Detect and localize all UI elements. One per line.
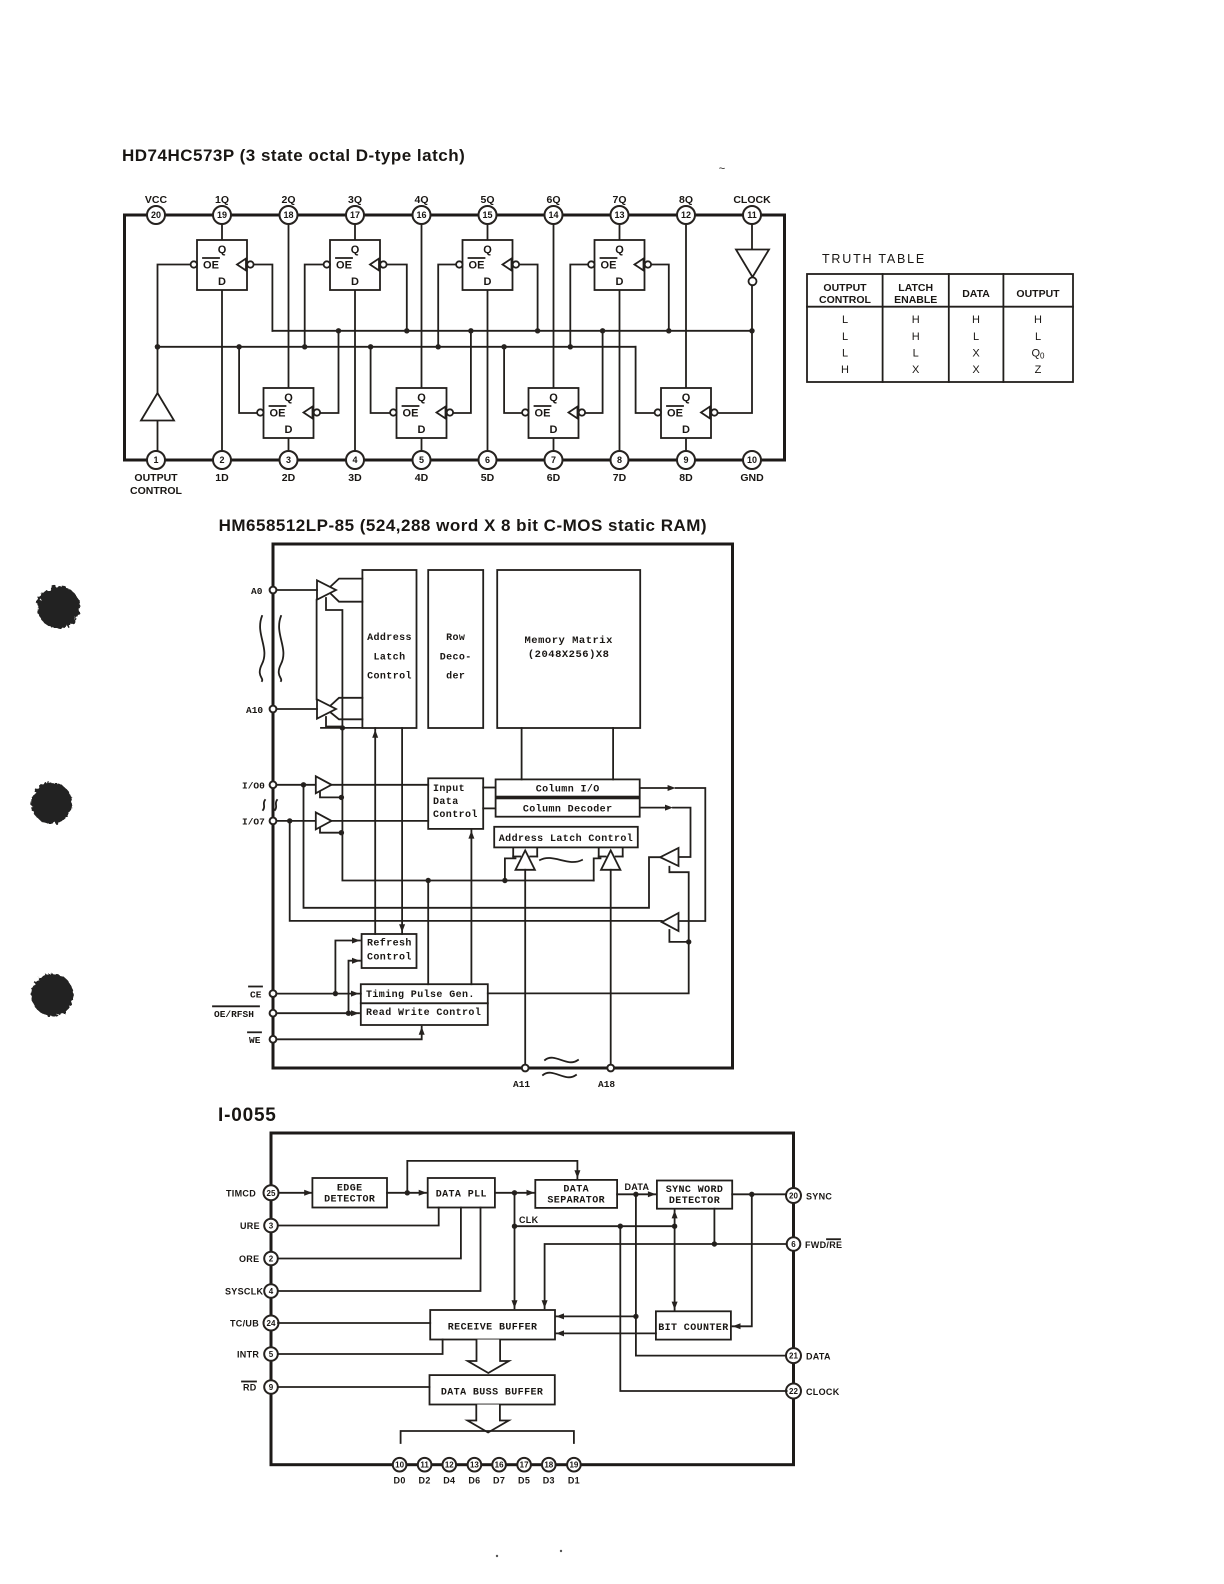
svg-text:TC/UB: TC/UB — [230, 1319, 259, 1329]
svg-text:OE/RFSH: OE/RFSH — [214, 1009, 254, 1020]
svg-text:LATCH: LATCH — [898, 282, 933, 294]
svg-text:Deco-: Deco- — [440, 652, 472, 663]
svg-text:1Q: 1Q — [215, 194, 229, 206]
svg-text:OE: OE — [469, 260, 485, 272]
svg-text:Q: Q — [483, 244, 492, 256]
svg-text:L: L — [842, 348, 848, 360]
svg-text:3: 3 — [286, 455, 291, 465]
svg-text:Q: Q — [351, 244, 360, 256]
svg-text:7Q: 7Q — [612, 194, 626, 206]
svg-text:Read Write Control: Read Write Control — [366, 1007, 481, 1019]
svg-text:CLOCK: CLOCK — [733, 194, 771, 206]
svg-text:5D: 5D — [481, 472, 495, 484]
svg-text:SYSCLK: SYSCLK — [225, 1287, 264, 1297]
svg-text:DATA BUSS BUFFER: DATA BUSS BUFFER — [441, 1387, 543, 1398]
svg-text:Q: Q — [549, 392, 558, 404]
svg-text:DETECTOR: DETECTOR — [669, 1196, 720, 1207]
svg-text:5Q: 5Q — [480, 194, 494, 206]
svg-text:L: L — [842, 331, 848, 343]
svg-text:3D: 3D — [348, 472, 362, 484]
svg-text:OE: OE — [667, 408, 683, 420]
svg-text:6Q: 6Q — [546, 194, 560, 206]
svg-text:9: 9 — [683, 455, 688, 465]
svg-text:Control: Control — [367, 952, 412, 964]
svg-text:Q: Q — [284, 392, 293, 404]
svg-text:9: 9 — [269, 1383, 274, 1392]
svg-text:A0: A0 — [251, 586, 263, 597]
svg-text:D: D — [218, 276, 226, 288]
svg-text:CLK: CLK — [519, 1215, 539, 1225]
svg-text:CLOCK: CLOCK — [806, 1387, 840, 1397]
svg-text:6: 6 — [485, 455, 490, 465]
svg-text:20: 20 — [789, 1192, 798, 1201]
svg-text:D: D — [285, 424, 293, 436]
svg-text:D0: D0 — [394, 1476, 406, 1486]
svg-text:Q: Q — [615, 244, 624, 256]
svg-text:I-0055: I-0055 — [218, 1105, 277, 1126]
svg-text:1: 1 — [153, 455, 158, 465]
svg-text:D5: D5 — [518, 1476, 530, 1486]
svg-text:17: 17 — [520, 1461, 529, 1470]
svg-text:Q: Q — [218, 244, 227, 256]
svg-text:7: 7 — [551, 455, 556, 465]
svg-text:Q: Q — [682, 392, 691, 404]
svg-text:18: 18 — [283, 210, 293, 220]
svg-text:D2: D2 — [419, 1476, 431, 1486]
svg-text:Timing Pulse Gen.: Timing Pulse Gen. — [366, 989, 475, 1001]
svg-text:DATA: DATA — [806, 1351, 831, 1361]
svg-text:A10: A10 — [246, 705, 263, 716]
svg-text:~: ~ — [719, 163, 725, 175]
svg-text:URE: URE — [240, 1221, 260, 1231]
svg-text:3: 3 — [269, 1222, 274, 1231]
svg-text:8D: 8D — [679, 472, 693, 484]
svg-text:der: der — [446, 671, 465, 683]
svg-text:3Q: 3Q — [348, 194, 362, 206]
svg-text:25: 25 — [267, 1189, 276, 1198]
svg-text:Refresh: Refresh — [367, 938, 412, 950]
svg-text:2: 2 — [219, 455, 224, 465]
svg-text:Memory Matrix: Memory Matrix — [524, 635, 613, 647]
svg-text:10: 10 — [395, 1461, 404, 1470]
svg-text:14: 14 — [548, 210, 558, 220]
svg-text:D: D — [351, 276, 359, 288]
svg-text:Column I/O: Column I/O — [536, 784, 600, 796]
svg-text:(2048X256)X8: (2048X256)X8 — [528, 649, 610, 661]
svg-text:CE: CE — [250, 989, 262, 1000]
svg-text:18: 18 — [544, 1461, 553, 1470]
svg-text:D1: D1 — [568, 1476, 580, 1486]
svg-text:6D: 6D — [547, 472, 561, 484]
svg-text:TIMCD: TIMCD — [226, 1188, 256, 1198]
svg-text:21: 21 — [789, 1352, 798, 1361]
svg-text:D: D — [484, 276, 492, 288]
svg-text:2D: 2D — [282, 472, 296, 484]
svg-text:OE: OE — [203, 260, 219, 272]
svg-text:8Q: 8Q — [679, 194, 693, 206]
svg-text:A11: A11 — [513, 1079, 530, 1090]
svg-text:6: 6 — [791, 1240, 796, 1249]
svg-text:Q: Q — [417, 392, 426, 404]
svg-text:L: L — [1035, 331, 1041, 343]
svg-text:D: D — [682, 424, 690, 436]
svg-text:15: 15 — [482, 210, 492, 220]
svg-text:4D: 4D — [415, 472, 429, 484]
svg-text:DATA: DATA — [625, 1182, 650, 1192]
svg-text:X: X — [972, 364, 980, 376]
svg-text:H: H — [1034, 314, 1042, 326]
svg-text:8: 8 — [617, 455, 622, 465]
svg-text:Column Decoder: Column Decoder — [523, 804, 613, 816]
svg-text:4: 4 — [352, 455, 357, 465]
svg-text:H: H — [912, 314, 920, 326]
svg-text:VCC: VCC — [145, 194, 168, 206]
svg-text:12: 12 — [445, 1461, 454, 1470]
svg-text:ENABLE: ENABLE — [894, 294, 937, 306]
svg-text:OE: OE — [601, 260, 617, 272]
svg-text:I/O0: I/O0 — [242, 781, 265, 792]
svg-text:TRUTH TABLE: TRUTH TABLE — [822, 252, 926, 266]
svg-text:16: 16 — [416, 210, 426, 220]
svg-text:Address: Address — [367, 632, 412, 644]
svg-text:D3: D3 — [543, 1476, 555, 1486]
svg-text:I/O7: I/O7 — [242, 817, 265, 828]
svg-text:5: 5 — [419, 455, 424, 465]
svg-text:RD: RD — [243, 1383, 257, 1393]
svg-text:X: X — [912, 364, 920, 376]
svg-text:16: 16 — [495, 1461, 504, 1470]
svg-text:L: L — [973, 331, 979, 343]
svg-text:20: 20 — [151, 210, 161, 220]
svg-text:Data: Data — [433, 797, 459, 808]
svg-text:7D: 7D — [613, 472, 627, 484]
svg-text:WE: WE — [249, 1035, 261, 1046]
svg-text:22: 22 — [789, 1387, 798, 1396]
svg-text:SEPARATOR: SEPARATOR — [547, 1196, 605, 1207]
svg-text:10: 10 — [747, 455, 757, 465]
svg-text:OUTPUT: OUTPUT — [823, 282, 867, 294]
svg-text:GND: GND — [740, 472, 764, 484]
svg-text:Input: Input — [433, 784, 465, 795]
svg-text:OE: OE — [336, 260, 352, 272]
svg-text:17: 17 — [350, 210, 360, 220]
svg-text:DETECTOR: DETECTOR — [324, 1195, 375, 1206]
svg-text:SYNC: SYNC — [806, 1191, 832, 1201]
svg-text:Row: Row — [446, 633, 465, 644]
svg-text:D: D — [550, 424, 558, 436]
svg-text:H: H — [841, 364, 849, 376]
svg-text:Control: Control — [367, 671, 412, 683]
svg-text:13: 13 — [470, 1461, 479, 1470]
svg-text:Control: Control — [433, 809, 478, 821]
svg-text:D6: D6 — [468, 1476, 480, 1486]
svg-text:13: 13 — [614, 210, 624, 220]
svg-text:D4: D4 — [443, 1476, 455, 1486]
svg-text:Address Latch Control: Address Latch Control — [499, 833, 633, 845]
svg-text:SYNC WORD: SYNC WORD — [666, 1185, 724, 1196]
svg-text:INTR: INTR — [237, 1350, 259, 1360]
svg-text:OE: OE — [535, 408, 551, 420]
svg-text:Z: Z — [1035, 364, 1042, 376]
svg-text:CONTROL: CONTROL — [130, 485, 182, 497]
svg-text:19: 19 — [569, 1461, 578, 1470]
svg-text:EDGE: EDGE — [337, 1184, 363, 1195]
svg-text:D7: D7 — [493, 1476, 505, 1486]
svg-text:OE: OE — [403, 408, 419, 420]
svg-text:FWD/RE: FWD/RE — [805, 1240, 842, 1250]
svg-text:HM658512LP-85 (524,288 word X: HM658512LP-85 (524,288 word X 8 bit C-MO… — [219, 516, 707, 535]
svg-text:4Q: 4Q — [414, 194, 428, 206]
svg-text:24: 24 — [267, 1319, 276, 1328]
svg-text:X: X — [972, 348, 980, 360]
svg-text:5: 5 — [269, 1350, 274, 1359]
svg-text:4: 4 — [269, 1287, 274, 1296]
svg-text:H: H — [912, 331, 920, 343]
svg-text:BIT COUNTER: BIT COUNTER — [658, 1323, 728, 1334]
svg-text:DATA: DATA — [962, 288, 990, 300]
svg-text:CONTROL: CONTROL — [819, 294, 871, 306]
svg-text:2Q: 2Q — [281, 194, 295, 206]
svg-text:A18: A18 — [598, 1079, 615, 1090]
svg-text:L: L — [842, 314, 848, 326]
svg-text:HD74HC573P (3 state octal D-ty: HD74HC573P (3 state octal D-type latch) — [122, 146, 465, 165]
svg-text:H: H — [972, 314, 980, 326]
svg-text:ORE: ORE — [239, 1254, 259, 1264]
svg-text:11: 11 — [420, 1461, 429, 1470]
svg-text:OE: OE — [270, 408, 286, 420]
svg-text:2: 2 — [269, 1255, 274, 1264]
svg-text:19: 19 — [217, 210, 227, 220]
svg-text:1D: 1D — [215, 472, 229, 484]
svg-text:RECEIVE BUFFER: RECEIVE BUFFER — [448, 1323, 538, 1334]
svg-text:L: L — [913, 348, 919, 360]
svg-text:D: D — [616, 276, 624, 288]
svg-text:12: 12 — [681, 210, 691, 220]
svg-text:OUTPUT: OUTPUT — [134, 472, 178, 484]
svg-text:DATA: DATA — [563, 1185, 589, 1196]
svg-text:DATA PLL: DATA PLL — [436, 1190, 487, 1201]
svg-text:D: D — [418, 424, 426, 436]
svg-text:Latch: Latch — [373, 651, 405, 663]
svg-text:11: 11 — [747, 210, 757, 220]
svg-text:OUTPUT: OUTPUT — [1016, 288, 1060, 300]
